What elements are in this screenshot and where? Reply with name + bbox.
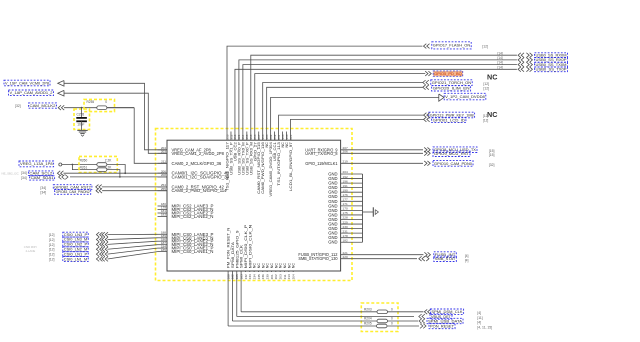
pin 321 USB_SS_RX0_P (top) <box>238 132 240 141</box>
svg-text:[4]: [4] <box>477 311 481 315</box>
svg-text:204: 204 <box>291 274 295 279</box>
wire from top pin 216 to row y=73.6 <box>255 74 425 132</box>
svg-text:[34]: [34] <box>40 186 46 190</box>
svg-text:CAM0/1_I2C_SDA/GPIO_39: CAM0/1_I2C_SDA/GPIO_39 <box>172 174 230 179</box>
svg-text:CSI0_LN1_P: CSI0_LN1_P <box>64 252 88 256</box>
svg-text:NC: NC <box>487 73 497 82</box>
svg-text:[12]: [12] <box>483 118 488 122</box>
pin 179 MIPI_CS2_LANE3_N <box>158 209 168 211</box>
wire from top pin 306 to row y=87.3 <box>267 87 423 131</box>
net SPMI_USB_DATA <box>419 319 422 324</box>
pin 234 NC (bottom) <box>253 271 255 272</box>
resistor R260 pullup <box>79 156 117 172</box>
wire VREG_L13A_1P8 to pullups <box>62 164 97 166</box>
wire VBUS_DET row <box>237 316 414 318</box>
svg-text:192: 192 <box>343 175 348 179</box>
svg-text:191: 191 <box>343 184 348 188</box>
svg-text:[12]: [12] <box>49 243 55 247</box>
svg-text:[11]: [11] <box>477 316 482 320</box>
wire R260 to SCL <box>107 165 125 174</box>
svg-text:USB0_SS_TX0M: USB0_SS_TX0M <box>536 63 567 67</box>
svg-text:[12]: [12] <box>49 238 55 242</box>
pin 313 USB_CC2 (top) <box>234 132 236 141</box>
pin 216 GPIO_27 (top) <box>254 132 256 141</box>
wire R261 to SDA <box>107 170 120 177</box>
svg-text:GPIO17_FLASH_ON: GPIO17_FLASH_ON <box>433 43 471 48</box>
wire from top pin 310 to row y=55.2 <box>251 55 517 131</box>
pin 211 CAM0_2_MCLK/GPIO_36 <box>158 162 168 164</box>
pin 186 MIPI_CS0_LANE2_P <box>158 240 168 242</box>
svg-text:LCD1_BL_EN/GPIO_97: LCD1_BL_EN/GPIO_97 <box>289 142 293 191</box>
wire CSI0_LN2_P to chip <box>108 241 158 244</box>
wire CSI0_LN3_P to chip <box>108 233 158 235</box>
svg-text:[12]: [12] <box>483 87 489 91</box>
svg-text:[34]: [34] <box>40 191 46 195</box>
pin 206 CAM0/1_I2C_SCL/GPIO_40 <box>158 172 168 174</box>
svg-text:VREG_CAM1_2_AVDD_2P8: VREG_CAM1_2_AVDD_2P8 <box>172 151 225 156</box>
pin 255 CAM0_2_PWD_N/GPIO_114 <box>158 190 168 192</box>
wire from top pin 221 to row y=119.4 <box>290 119 423 131</box>
pin 162 SPMI_DATA (bottom) <box>231 271 233 279</box>
svg-text:R261: R261 <box>80 165 88 169</box>
svg-text:0: 0 <box>105 100 107 104</box>
svg-text:190: 190 <box>343 188 348 192</box>
pin 163 SPMI_CLK (bottom) <box>240 271 242 279</box>
pin 183 MIPI_CS2_LANE2_N <box>158 216 168 218</box>
pin 217 CAM0_RST_N/GPIO_115 (top) <box>258 132 260 141</box>
svg-text:GPIO9_MCU_RST: GPIO9_MCU_RST <box>434 151 470 156</box>
svg-text:[34]: [34] <box>21 171 27 175</box>
wire FUSB_INT row <box>341 254 424 256</box>
net FUSB_INT <box>424 252 427 257</box>
svg-text:MIPI_CS2_LANE2_N: MIPI_CS2_LANE2_N <box>172 214 214 219</box>
power node circle <box>59 163 62 166</box>
pin 318 NC (top) <box>285 132 287 141</box>
svg-text:GND: GND <box>328 240 337 245</box>
svg-text:SMB_STAT/GPIO_130: SMB_STAT/GPIO_130 <box>298 256 338 261</box>
svg-text:GPIO82_CAM_RST2: GPIO82_CAM_RST2 <box>54 185 91 189</box>
svg-text:231: 231 <box>343 229 348 233</box>
svg-text:NC: NC <box>487 110 497 119</box>
svg-text:CAM0_2_PWD_N/GPIO_114: CAM0_2_PWD_N/GPIO_114 <box>172 188 228 193</box>
svg-text:[34]: [34] <box>21 176 27 180</box>
wire CAM_SDA1 to pin 208 <box>70 176 167 178</box>
GND pins with stubs to ground bus <box>341 173 363 175</box>
net SPMI_DSM_CLK <box>424 309 427 314</box>
svg-text:183: 183 <box>161 213 166 217</box>
svg-text:USB0_SS_RX0M: USB0_SS_RX0M <box>536 53 567 57</box>
svg-text:C255: C255 <box>77 113 85 117</box>
svg-text:228: 228 <box>343 216 348 220</box>
pin 203 VREG_CAM1_2_AVDD_2P8 <box>158 152 168 154</box>
svg-text:196: 196 <box>343 179 348 183</box>
pin 202 NC (bottom) <box>275 271 277 272</box>
svg-text:R255: R255 <box>87 100 95 104</box>
pin 213 NC (bottom) <box>288 271 290 272</box>
net GPIO01_LCD_ID <box>424 117 427 122</box>
svg-text:V_1P2_CAM_DVDD8: V_1P2_CAM_DVDD8 <box>445 94 485 99</box>
wire from top pin 321 to row y=59.9 <box>239 60 517 132</box>
svg-text:SPMI_USB_DATA: SPMI_USB_DATA <box>428 319 462 323</box>
svg-text:4-LANE: 4-LANE <box>26 249 36 253</box>
svg-text:[32]: [32] <box>15 104 21 108</box>
wire from top pin 218 to row y=46.1 <box>227 46 422 131</box>
svg-text:GPIO21_TORCH_ON: GPIO21_TORCH_ON <box>432 80 471 85</box>
wire from bottom pin 165 to row y=316.5 <box>236 279 238 317</box>
svg-text:CAM_SCL2: CAM_SCL2 <box>29 171 52 175</box>
wire from top pin 313 to row y=69.3 <box>235 69 517 131</box>
pin 316 CAM0_PWD_N/GPIO_116 (top) <box>262 132 264 141</box>
net PON_RESET <box>420 324 423 329</box>
wire from top pin 314 to row y=64.6 <box>243 65 517 132</box>
pin 202 VREG_CAM0_DVDD_1P304 (top) <box>270 132 272 141</box>
wire from bottom pin 166 to row y=326.0 <box>227 279 229 326</box>
wire SMB_STAT row <box>341 258 417 260</box>
svg-text:255: 255 <box>161 187 166 191</box>
net VBUS_DET <box>419 314 422 319</box>
ground symbol <box>363 211 374 213</box>
pin 204 NC (bottom) <box>292 271 294 272</box>
svg-text:175: 175 <box>343 211 348 215</box>
pin 184 MIPI_CS0_LANE1_P <box>158 247 168 249</box>
pin 233 MIPI_DSI0_CLK_N (bottom) <box>249 271 251 272</box>
pin 314 USB_SS_TX0_M (top) <box>242 132 244 141</box>
svg-text:USB0_SS_RX0P: USB0_SS_RX0P <box>536 58 567 62</box>
svg-text:204: 204 <box>343 170 348 174</box>
svg-text:0: 0 <box>391 322 393 326</box>
svg-text:[14]: [14] <box>498 56 503 60</box>
pin 232 MIPI_DSI0_CLK_P (bottom) <box>244 271 246 272</box>
svg-text:177: 177 <box>343 198 348 202</box>
svg-text:PON_RESET: PON_RESET <box>430 324 455 328</box>
ground for C255 <box>77 129 87 131</box>
pin 221 LCD1_BL_EN/GPIO_97 (top) <box>289 132 291 141</box>
svg-text:R204: R204 <box>364 317 372 321</box>
net GPIO9_MCU_RST <box>424 151 427 156</box>
wire GPIO82_CAM_RST2 to pin 254 <box>102 186 167 188</box>
svg-text:185: 185 <box>161 248 166 252</box>
pin 218 TS1_RST_N/GPIO_117 (top) <box>226 132 228 141</box>
svg-text:R205: R205 <box>364 322 372 326</box>
wire V_1AP_CAM_AVDD1_2 to pin 203 <box>64 93 167 153</box>
pin 315 USB_SS_TX0_P (top) <box>246 132 248 141</box>
svg-text:182: 182 <box>343 238 348 242</box>
svg-text:[4]: [4] <box>465 258 469 262</box>
svg-text:0: 0 <box>391 317 393 321</box>
pin 204 VREG_CAM_AF_2P8 <box>158 149 168 151</box>
svg-text:[12]: [12] <box>482 45 488 49</box>
svg-text:[12]: [12] <box>49 257 55 261</box>
net GPIO8_MCU_USD_TX <box>424 147 427 152</box>
net GPIO17_FLASH_ON <box>424 44 427 49</box>
svg-text:V_1SP_CAM_VCM0_2P8: V_1SP_CAM_VCM0_2P8 <box>5 81 49 85</box>
svg-text:[4]: [4] <box>477 320 481 324</box>
svg-text:[12]: [12] <box>49 248 55 252</box>
svg-text:10pF: 10pF <box>77 123 84 127</box>
pin 181 MIPI_CS2_LANE2_P <box>158 212 168 214</box>
svg-text:229: 229 <box>343 220 348 224</box>
pin 306 NC (top) <box>266 132 268 141</box>
svg-text:[14]: [14] <box>498 65 503 69</box>
svg-text:CSI0_LN2_P: CSI0_LN2_P <box>64 243 88 247</box>
svg-text:[32]: [32] <box>489 163 495 167</box>
pin 212 USB_CC1 (top) <box>274 132 276 141</box>
net SMB_STAT <box>419 256 422 261</box>
wire CSI0_LN1_M to chip <box>108 252 158 259</box>
resistor group highlight <box>361 303 398 332</box>
svg-text:VREG_L13A_1P8: VREG_L13A_1P8 <box>20 162 53 166</box>
svg-text:V_1AP_CAM_AVDD1_2: V_1AP_CAM_AVDD1_2 <box>10 91 53 95</box>
svg-text:2.2K: 2.2K <box>105 158 112 162</box>
wire SPMI_DSM_CLK row <box>241 311 377 313</box>
wire UART_RX row <box>341 149 423 151</box>
net GPIO10_CAM_PDN0 <box>424 161 427 166</box>
port V_1P2_CAM_DVDD8 <box>439 94 444 101</box>
svg-text:CSI0_LN2_M: CSI0_LN2_M <box>64 247 87 251</box>
wire PON_RESET row <box>228 325 376 327</box>
svg-text:221: 221 <box>289 134 293 139</box>
svg-text:MIPI_CS0_LANE1_N: MIPI_CS0_LANE1_N <box>172 249 214 254</box>
svg-text:230: 230 <box>343 225 348 229</box>
svg-text:CSI0_LN1_M: CSI0_LN1_M <box>64 257 87 261</box>
svg-text:USB0_SS_TX0P: USB0_SS_TX0P <box>536 68 568 72</box>
svg-text:NC: NC <box>292 263 296 269</box>
svg-text:[12]: [12] <box>49 253 55 257</box>
resistor R255 <box>84 99 115 111</box>
pin 211 NC (bottom) <box>283 271 285 272</box>
IC U1 SM4250 <box>167 140 341 271</box>
svg-text:UART_TX/GPIO_8: UART_TX/GPIO_8 <box>305 151 338 156</box>
wire V_1SP_CAM_VCM0_2P8 to pin 204 <box>64 83 167 150</box>
pin 310 USB_SS_RX0_M (top) <box>250 132 252 141</box>
wire CAM_MCLK2 to pin 211 <box>64 107 134 109</box>
svg-text:CAM_MCLK2: CAM_MCLK2 <box>30 104 56 108</box>
pin 203 NC (bottom) <box>279 271 281 272</box>
pin 201 NC (bottom) <box>270 271 272 272</box>
svg-text:CAM_SDA1: CAM_SDA1 <box>31 176 54 180</box>
pin 211 TS1_INT/GPIO_113 (top) <box>278 132 280 141</box>
svg-text:[12]: [12] <box>483 114 488 118</box>
svg-text:[4, 11, 15]: [4, 11, 15] <box>477 325 492 329</box>
svg-text:CSI0_LN3_P: CSI0_LN3_P <box>64 233 88 237</box>
wire CSI0_LN3_M to chip <box>108 238 158 240</box>
wire from top pin 316 to row y=82.5 <box>263 83 423 132</box>
svg-text:219: 219 <box>343 160 348 164</box>
wire GND bus <box>362 174 364 242</box>
svg-text:R203: R203 <box>364 307 372 311</box>
pin 165 PM8125_GPIO_9 (bottom) <box>236 271 238 279</box>
svg-text:TS1_INT/GPIO_113: TS1_INT/GPIO_113 <box>277 142 281 186</box>
net GPIO20_ILIM_EN <box>423 85 426 90</box>
pin 239 NC (bottom) <box>266 271 268 272</box>
wire from top pin 211 to row y=115.1 <box>279 115 424 131</box>
pin 188 MIPI_CS0_LANE3_P <box>158 233 168 235</box>
svg-text:[14]: [14] <box>498 61 503 65</box>
wire UART_TX row <box>341 152 423 154</box>
highlight box U1 selection <box>156 129 353 281</box>
svg-text:[12]: [12] <box>483 82 489 86</box>
wire through R255 <box>107 107 134 109</box>
pin 166 PM_PON_RESET_N (bottom) <box>227 271 229 279</box>
pin 312 USB_SS_TX1_P (top) <box>230 132 232 141</box>
pin 187 MIPI_CS0_LANE2_N <box>158 244 168 246</box>
wire from top pin 202 to row y=97.4 <box>271 97 439 131</box>
port V_1SP_CAM_VCM0_2P8 <box>4 80 50 86</box>
pin 185 MIPI_CS0_LANE1_N <box>158 251 168 253</box>
svg-text:NE_SB2_I2C: NE_SB2_I2C <box>2 171 19 175</box>
svg-text:0: 0 <box>391 307 393 311</box>
svg-text:211: 211 <box>161 160 166 164</box>
pin 208 CAM0/1_I2C_SDA/GPIO_39 <box>158 176 168 178</box>
svg-text:R260: R260 <box>80 158 88 162</box>
svg-text:CAM0_PWD_N/GPIO_116: CAM0_PWD_N/GPIO_116 <box>261 142 265 194</box>
svg-text:GPIO10_CAM_PDN0: GPIO10_CAM_PDN0 <box>434 161 473 166</box>
svg-text:GPIO5_PD_BQ: GPIO5_PD_BQ <box>434 72 462 76</box>
port V_1AP_CAM_AVDD1_2 <box>9 90 54 96</box>
svg-text:[15]: [15] <box>489 153 495 157</box>
net GPIO5_PD_BQ (selected, red) <box>425 71 428 76</box>
svg-text:GPIO01_LCD_ID: GPIO01_LCD_ID <box>433 117 465 122</box>
wire from bottom pin 162 to row y=321.0 <box>231 279 233 321</box>
wire CAM_SCL2 to pin 206 <box>64 172 168 174</box>
svg-text:176: 176 <box>343 193 348 197</box>
svg-text:CAM0_2_MCLK/GPIO_36: CAM0_2_MCLK/GPIO_36 <box>172 161 222 166</box>
svg-text:178: 178 <box>343 234 348 238</box>
junction C255 tap <box>81 107 83 109</box>
capacitor C255 <box>74 109 90 130</box>
net GPIO13_PWR_KEY_1M8 <box>424 113 427 118</box>
svg-text:CSI0_LN3_M: CSI0_LN3_M <box>64 238 87 242</box>
svg-text:171: 171 <box>343 202 348 206</box>
wire MCLK1 row <box>341 162 423 164</box>
svg-text:GPIO83_CAM_PWDN2: GPIO83_CAM_PWDN2 <box>56 190 90 194</box>
svg-text:GPIO_119/MCLK1: GPIO_119/MCLK1 <box>305 161 338 166</box>
svg-text:GPIO20_ILIM_EN: GPIO20_ILIM_EN <box>433 86 470 91</box>
pin 189 MIPI_CS0_LANE3_N <box>158 237 168 239</box>
net GPIO21_TORCH_ON <box>423 80 426 85</box>
pin 254 CAM0_2_RST_N/GPIO_42 <box>158 186 168 188</box>
svg-text:170: 170 <box>343 207 348 211</box>
pin 235 NC (bottom) <box>257 271 259 272</box>
wire CSI0_LN2_M to chip <box>108 245 158 250</box>
svg-text:[12]: [12] <box>49 233 55 237</box>
net VREG_L13A_1P8 <box>19 161 54 167</box>
pin 316 NC (top) <box>282 132 284 141</box>
svg-text:SMB_STAT: SMB_STAT <box>435 257 456 261</box>
wire from bottom pin 163 to row y=311.8 <box>240 279 242 312</box>
wire GPIO83_CAM_PWDN2 to pin 255 <box>102 190 167 192</box>
wire CSI0_LN1_P to chip <box>108 248 158 254</box>
pin 236 NC (bottom) <box>262 271 264 272</box>
wire SPMI_USB_DATA row <box>232 320 377 322</box>
svg-text:MIPI_DSI0_CLK_N: MIPI_DSI0_CLK_N <box>248 224 252 268</box>
svg-text:[14]: [14] <box>498 51 503 55</box>
pin 180 MIPI_CS2_LANE3_P <box>158 205 168 207</box>
